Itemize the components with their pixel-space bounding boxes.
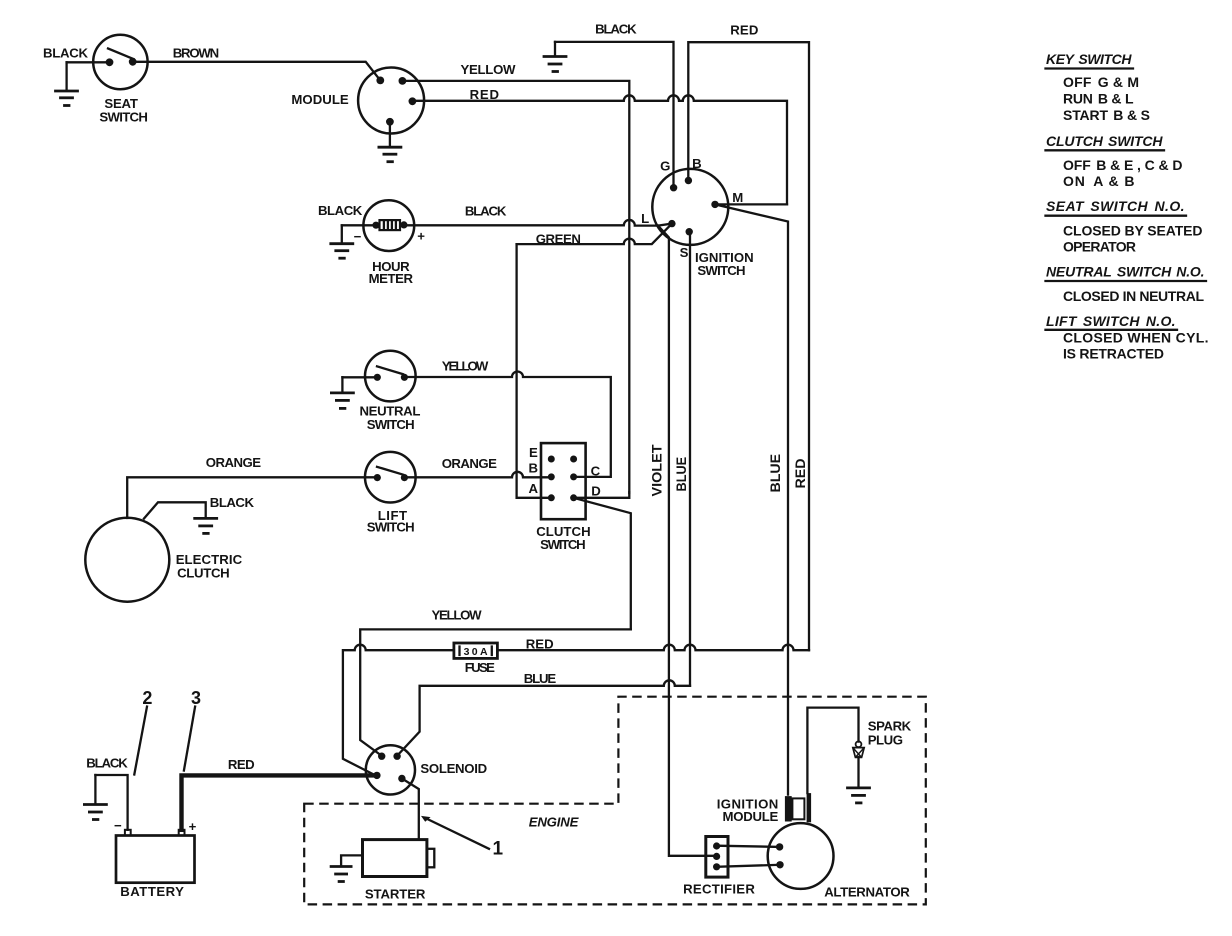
svg-text:NEUTRAL SWITCH N.O.: NEUTRAL SWITCH N.O. [1046,264,1205,280]
label IGNITION MODULE [717,797,779,824]
hour meter ground [331,225,353,258]
svg-text:PLUG: PLUG [868,733,903,748]
svg-text:B: B [692,156,702,171]
alternator G1 [768,823,834,889]
module ground [379,122,401,162]
wire black top to G [555,42,674,188]
wire yellow bottom to solenoid [360,629,631,755]
legend KEY SWITCH [1046,51,1151,123]
wire black battery negative [95,775,127,830]
svg-text:BLACK: BLACK [43,46,88,61]
svg-text:LIFT SWITCH N.O.: LIFT SWITCH N.O. [1046,313,1176,329]
svg-text:SWITCH: SWITCH [697,263,745,278]
wire brown seat to module [133,62,381,81]
svg-text:30A: 30A [464,646,488,658]
svg-text:E: E [529,445,538,460]
svg-text:ENGINE: ENGINE [529,815,580,830]
ignition module U2 [785,793,811,822]
svg-text:RED: RED [228,757,255,772]
fuse F1 30A [454,643,498,658]
wire violet branch diagonal [658,226,717,856]
svg-text:3: 3 [191,688,201,708]
legend LIFT SWITCH N.O. [1046,313,1209,362]
electric clutch L1 [85,518,169,602]
seat switch SW1 [93,35,147,89]
svg-text:M: M [732,190,743,205]
svg-text:SWITCH: SWITCH [367,417,415,432]
svg-text:RED: RED [730,23,758,38]
label SEAT SWITCH [99,96,147,125]
svg-text:ELECTRIC: ELECTRIC [176,552,243,567]
wire rectifier to alternator bottom [717,865,780,867]
wire green vertical to clutch switch A [517,244,552,498]
wire blue S vertical [688,232,691,686]
svg-text:YELLOW: YELLOW [442,359,489,374]
svg-text:ORANGE: ORANGE [206,455,261,470]
svg-text:SWITCH: SWITCH [99,109,147,124]
wire yellow module to node D vertical [402,81,629,493]
battery ground [84,775,106,820]
wire D to module yellow vertical [574,492,630,498]
svg-text:C: C [591,464,601,479]
wire black to seat switch [67,61,110,63]
battery BT1 [116,830,195,883]
callout 3 [184,688,201,770]
svg-text:ALTERNATOR: ALTERNATOR [824,884,910,899]
svg-text:RED: RED [470,87,499,102]
wire orange lift to electric clutch [127,477,377,518]
svg-text:B: B [529,460,539,475]
wire red top [688,42,809,650]
svg-text:ON A & B: ON A & B [1063,173,1135,189]
svg-text:RUN B & L: RUN B & L [1063,91,1134,107]
rectifier D1 [706,837,728,878]
wire ignition module to spark plug [807,708,858,794]
top ground (black net) [544,42,566,72]
svg-text:−: − [114,818,122,833]
wire red module to M vertical (hops over yellow, G, B verticals) [412,95,787,204]
svg-text:ORANGE: ORANGE [442,456,497,471]
svg-text:BLACK: BLACK [465,203,507,218]
neutral switch SW2 [365,351,416,402]
svg-text:BLACK: BLACK [595,21,637,36]
svg-text:BLUE: BLUE [524,671,557,686]
svg-text:CLOSED IN NEUTRAL: CLOSED IN NEUTRAL [1063,288,1204,304]
svg-text:MODULE: MODULE [291,92,349,107]
label LIFT SWITCH [367,508,415,534]
starter M2 [363,840,435,877]
hour meter M1 [363,200,414,251]
svg-text:OPERATOR: OPERATOR [1063,239,1136,255]
label SPARK PLUG [868,718,912,747]
svg-text:L: L [641,211,649,226]
svg-text:SWITCH: SWITCH [367,519,415,534]
legend CLUTCH SWITCH [1046,133,1183,189]
wire yellow neutral to clutch C (hop over green vertical) [404,372,610,477]
svg-text:RECTIFIER: RECTIFIER [683,882,755,897]
wire blue bottom to solenoid (hop over violet) [397,680,690,756]
svg-text:BLUE: BLUE [768,454,783,493]
callout 2 [134,688,152,774]
label ELECTRIC CLUTCH [176,552,243,581]
svg-text:RED: RED [526,636,554,651]
electric clutch ground [195,518,217,533]
wire black hour meter left [342,224,376,226]
svg-text:SOLENOID: SOLENOID [420,761,487,776]
svg-text:G: G [660,158,670,173]
svg-text:OFF G & M: OFF G & M [1063,74,1139,90]
svg-text:SPARK: SPARK [868,718,912,733]
wire M diagonal to blue vertical down to ignition module [715,204,788,794]
label CLUTCH SWITCH [536,524,590,552]
ignition switch S1 [652,169,728,245]
svg-text:START B & S: START B & S [1063,107,1150,123]
label HOUR METER [369,259,414,286]
svg-text:RED: RED [793,458,808,488]
starter ground [331,855,362,881]
svg-text:NEUTRAL: NEUTRAL [360,403,421,418]
electric clutch black stub to ground [144,502,206,518]
svg-text:OFF B & E , C & D: OFF B & E , C & D [1063,157,1183,173]
lift switch SW3 [365,452,416,503]
label IGNITION SWITCH [695,250,754,278]
svg-text:IS RETRACTED: IS RETRACTED [1063,346,1164,362]
engine dashed boundary [304,697,926,905]
svg-text:YELLOW: YELLOW [461,62,517,77]
neutral switch ground [331,377,353,408]
spark plug P1 [853,741,864,787]
svg-text:S: S [680,245,689,260]
svg-text:+: + [189,819,197,834]
svg-text:BLACK: BLACK [318,203,363,218]
wire solenoid to starter [402,779,419,840]
wire neutral switch left [342,376,377,378]
svg-text:METER: METER [369,271,414,286]
svg-text:A: A [529,481,539,496]
svg-text:−: − [354,229,362,244]
svg-text:STARTER: STARTER [365,887,426,902]
svg-text:SWITCH: SWITCH [540,537,586,552]
svg-text:D: D [591,483,601,498]
wire green (hop over yellow vertical) to L [517,224,672,245]
wire red fuse run (hops over yellow, violet, blue, blue verticals) [343,645,809,776]
label NEUTRAL SWITCH [360,403,421,432]
svg-text:2: 2 [142,688,152,708]
svg-text:GREEN: GREEN [536,231,581,246]
svg-text:BLUE: BLUE [674,457,689,492]
wire M horizontal [715,203,787,205]
svg-text:VIOLET: VIOLET [649,444,664,497]
wire red battery cable to solenoid [182,775,375,829]
svg-text:BLACK: BLACK [210,495,255,510]
legend NEUTRAL SWITCH N.O. [1046,264,1207,304]
svg-text:SEAT SWITCH N.O.: SEAT SWITCH N.O. [1046,198,1185,214]
svg-text:YELLOW: YELLOW [432,608,483,623]
wire black hour meter to L (hop over yellow vertical) [404,220,672,226]
svg-text:+: + [417,229,425,244]
svg-text:MODULE: MODULE [723,809,779,824]
svg-text:CLOSED WHEN CYL.: CLOSED WHEN CYL. [1063,329,1209,345]
seat switch ground [56,62,78,105]
svg-text:CLOSED BY SEATED: CLOSED BY SEATED [1063,222,1203,238]
callout 1 [421,816,504,859]
wire D diagonal down to yellow bottom [574,498,631,630]
svg-text:FUSE: FUSE [465,660,495,675]
svg-text:KEY SWITCH: KEY SWITCH [1046,51,1132,67]
svg-text:BROWN: BROWN [173,46,220,61]
svg-text:CLUTCH: CLUTCH [177,566,230,581]
clutch switch S2 [541,443,586,519]
svg-text:BATTERY: BATTERY [120,884,184,899]
wire rectifier to alternator top [717,846,780,847]
module U1 [358,68,424,134]
solenoid K1 [366,745,415,794]
svg-text:1: 1 [493,838,504,859]
svg-text:BLACK: BLACK [86,756,128,771]
svg-text:CLUTCH SWITCH: CLUTCH SWITCH [1046,133,1163,149]
spark plug ground [848,788,870,803]
wire orange lift to clutch B (hop over green vertical) [404,472,551,477]
legend SEAT SWITCH N.O. [1046,198,1203,254]
